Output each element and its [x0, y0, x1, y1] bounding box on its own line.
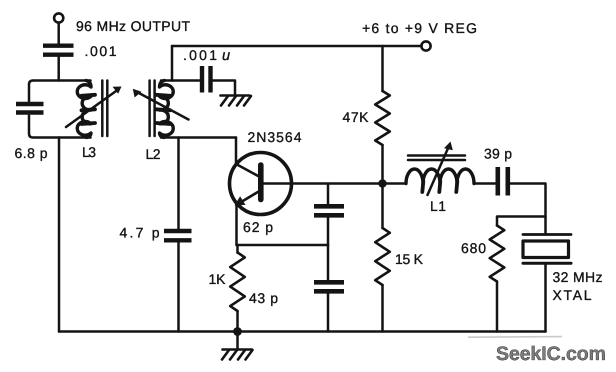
- wire +V drop: [381, 46, 384, 91]
- resistor R3 15K: [375, 228, 390, 285]
- capacitor C7 39p: [498, 167, 508, 196]
- svg-text:.001: .001: [85, 43, 117, 59]
- wire node to L1: [383, 182, 407, 185]
- wire collector to node: [292, 182, 383, 185]
- svg-text:+6 to +9 V REG: +6 to +9 V REG: [362, 20, 477, 36]
- wire emitter vertical: [235, 205, 238, 246]
- wire stub to 62p: [327, 184, 330, 204]
- wire left rail: [58, 138, 61, 332]
- wire terminal to C1: [57, 23, 60, 44]
- capacitor C2 6.8p: [16, 104, 44, 113]
- svg-text:15 K: 15 K: [395, 251, 424, 267]
- svg-text:680: 680: [461, 240, 486, 256]
- capacitor C5 62p: [314, 206, 344, 215]
- wire to 4.7p: [177, 138, 180, 229]
- svg-text:L1: L1: [430, 198, 446, 214]
- svg-text:62 p: 62 p: [243, 219, 273, 235]
- wire tank top: [29, 81, 33, 102]
- arrow L3: [66, 90, 118, 127]
- terminal J1 96 MHz output: [54, 13, 63, 22]
- wire base vertical: [235, 138, 238, 165]
- svg-text:96 MHz OUTPUT: 96 MHz OUTPUT: [76, 18, 190, 34]
- wire T to 680: [497, 217, 546, 226]
- terminal +V: [421, 41, 430, 50]
- wire below 6.8p: [29, 116, 91, 138]
- wire 4.7p to rail: [177, 242, 180, 331]
- wire C1 to tank: [57, 57, 60, 81]
- wire C3 to ground: [213, 81, 235, 96]
- core L2: [148, 81, 151, 137]
- resistor R4 680: [490, 226, 505, 282]
- capacitor C1 .001: [43, 46, 74, 55]
- wire emitter horizontal: [237, 244, 329, 247]
- wire L1 to 39p: [474, 182, 495, 185]
- transistor Q1 2N3564: [230, 153, 292, 215]
- wire bottom rail: [59, 330, 546, 333]
- core L1: [408, 154, 465, 157]
- base bar: [258, 165, 264, 200]
- capacitor C4 4.7p: [164, 231, 192, 240]
- wire 43p to rail: [327, 294, 330, 332]
- wire 39p right: [510, 184, 545, 234]
- wire node to 15K: [381, 184, 384, 229]
- inductor L2: [160, 81, 174, 138]
- node dot collector: [378, 179, 386, 187]
- base lead: [236, 164, 259, 177]
- svg-text:u: u: [222, 48, 230, 64]
- arrow L2: [137, 92, 189, 120]
- svg-text:SeekIC.com: SeekIC.com: [496, 343, 606, 365]
- svg-text:39 p: 39 p: [484, 146, 512, 162]
- svg-text:XTAL: XTAL: [553, 287, 592, 303]
- svg-text:L2: L2: [146, 146, 161, 162]
- wire 245 to 43p: [327, 245, 330, 280]
- inductor L1: [406, 169, 474, 184]
- svg-text:43 p: 43 p: [249, 290, 278, 306]
- svg-text:47K: 47K: [343, 109, 370, 125]
- wire L2 bottom / base wire: [161, 136, 236, 139]
- wire top rail: [172, 45, 422, 48]
- resistor R1 1K: [230, 253, 245, 312]
- capacitor C3 .001u: [202, 66, 211, 93]
- svg-text:2N3564: 2N3564: [248, 129, 302, 145]
- junction dot emitter ground: [233, 327, 242, 336]
- svg-text:1K: 1K: [209, 271, 227, 287]
- svg-text:32 MHz: 32 MHz: [553, 269, 603, 285]
- core L3: [101, 81, 104, 137]
- collector lead: [263, 182, 292, 185]
- svg-text:L3: L3: [82, 144, 96, 160]
- emitter lead: [242, 191, 260, 202]
- inductor L3: [77, 81, 91, 138]
- wire crystal to rail: [544, 265, 547, 332]
- wire L2 top to rail: [161, 79, 200, 82]
- capacitor C6 43p: [314, 282, 344, 291]
- scan streak: [468, 336, 562, 339]
- ground G1: [221, 96, 252, 106]
- crystal Y1: [523, 233, 571, 236]
- arrow L1: [428, 146, 450, 195]
- resistor R2 47K: [375, 91, 390, 145]
- svg-text:.001: .001: [183, 47, 217, 63]
- svg-text:6.8 p: 6.8 p: [15, 145, 48, 161]
- svg-text:4.7 p: 4.7 p: [120, 225, 160, 241]
- ground G2: [236, 332, 239, 349]
- wire 62p to emitter wire: [327, 218, 330, 245]
